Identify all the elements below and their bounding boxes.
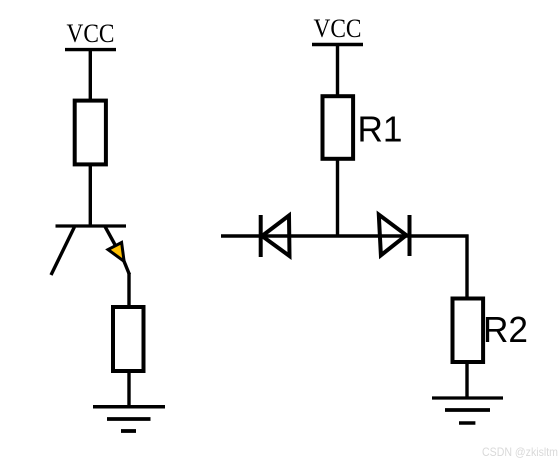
wire VCC rail to R (left top) xyxy=(89,49,92,102)
ground symbol (left) bar 1 xyxy=(93,405,165,409)
wire R to transistor base bar xyxy=(89,164,92,226)
ground symbol (right) bar 1 xyxy=(432,396,503,399)
resistor (left lower, unlabeled) xyxy=(113,307,144,371)
wire emitter arrowhead to bend xyxy=(124,260,130,275)
ground symbol (left) bar 2 xyxy=(107,417,151,421)
svg-text:CSDN @zkisltm: CSDN @zkisltm xyxy=(482,445,558,459)
wire bend down to lower resistor xyxy=(127,273,130,309)
transistor Q1 base bar xyxy=(56,224,127,227)
transistor Q1 emitter stroke (right diagonal) xyxy=(105,227,124,262)
wire lower resistor to ground xyxy=(127,371,130,407)
transistor Q1 collector stroke (left diagonal) xyxy=(51,227,74,275)
resistor R1 xyxy=(323,96,354,159)
diode D1 triangle (pointing left) xyxy=(262,216,290,257)
resistor R2 xyxy=(453,299,484,363)
wire VCC rail to R1 xyxy=(336,44,339,98)
horizontal bus wire xyxy=(221,234,469,238)
diode D1 cathode bar xyxy=(259,215,263,257)
wire R2 to ground xyxy=(465,360,468,398)
diode D2 triangle (pointing right) xyxy=(379,215,407,256)
ground symbol (right) bar 2 xyxy=(445,408,490,412)
VCC power rail bar (left) xyxy=(65,48,116,51)
wire R1 to bus junction xyxy=(336,157,339,237)
svg-text:VCC: VCC xyxy=(314,14,362,43)
ground symbol (left) bar 3 xyxy=(121,429,136,433)
svg-text:R1: R1 xyxy=(358,109,403,150)
svg-text:R2: R2 xyxy=(483,309,528,350)
svg-text:VCC: VCC xyxy=(67,19,115,48)
transistor Q1 emitter arrowhead (orange) xyxy=(108,243,124,262)
VCC power rail bar (right) xyxy=(312,43,363,46)
diode D2 cathode bar xyxy=(408,215,412,256)
ground symbol (right) bar 3 xyxy=(459,421,475,425)
wire bus corner down to R2 xyxy=(465,235,468,301)
resistor (left upper, unlabeled) xyxy=(75,101,106,165)
